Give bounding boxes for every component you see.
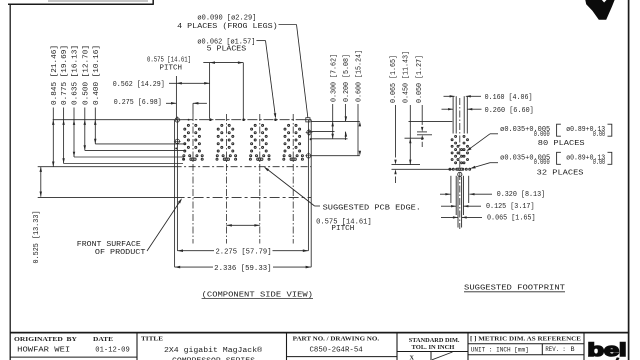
svg-text:0.275 [6.98]: 0.275 [6.98] [114,99,162,107]
dimension 0.400 (left) [94,108,96,144]
svg-text:0.065 [1.65]: 0.065 [1.65] [390,55,398,103]
component left edge (outer) [174,120,176,267]
svg-text:0.00: 0.00 [593,131,606,139]
ext line pin row right [311,138,348,140]
svg-text:C850-2G4R-54: C850-2G4R-54 [310,347,364,355]
dimension 0.525 front surface to PCB edge [40,167,42,197]
svg-text:0.000: 0.000 [534,159,550,167]
svg-text:STANDARD DIM.: STANDARD DIM. [409,337,460,344]
port group 2 centerline [225,114,227,244]
svg-text:FRONT SURFACE: FRONT SURFACE [77,241,141,249]
svg-text:HOWFAR WEI: HOWFAR WEI [17,347,70,355]
suggested PCB edge line (dash-dot across component) [38,166,175,168]
svg-text:0.775 [19.69]: 0.775 [19.69] [61,45,69,105]
leader to 80 places [490,133,498,135]
svg-text:0.00: 0.00 [593,159,606,167]
svg-text:0.450 [11.43]: 0.450 [11.43] [403,51,411,103]
port group 1 centerline [192,114,194,244]
port group 4 pin holes (0.035 dia pattern) [283,124,304,160]
svg-text:PART NO. / DRAWING NO.: PART NO. / DRAWING NO. [293,336,380,343]
dimension 0.160 (footprint top) [444,95,455,97]
dimension 0.500 (left) [84,108,86,151]
dimension 0.065 (footprint bottom) [441,216,458,218]
footprint frog leg pad [458,172,462,176]
svg-text:DATE: DATE [93,336,113,343]
svg-text:SUGGESTED PCB EDGE.: SUGGESTED PCB EDGE. [323,205,421,213]
top edge extension line to left dims [53,119,175,121]
stray pin dots near edges [175,147,177,149]
svg-text:ø0.090 [ø2.29]: ø0.090 [ø2.29] [197,14,256,22]
svg-text:B: B [571,346,575,354]
footprint bottom pad bars [450,176,452,203]
svg-text:bel: bel [588,340,627,360]
square mark at top-right corner [306,118,310,122]
port group 3 pin holes (0.035 dia pattern) [249,124,270,160]
svg-text:0.125 [3.17]: 0.125 [3.17] [486,203,535,211]
dimension 0.575 pitch (bottom) [226,224,259,226]
svg-text:[ ] METRIC DIM. AS REFERENCE: [ ] METRIC DIM. AS REFERENCE [470,335,581,342]
svg-text:2.336 [59.33]: 2.336 [59.33] [214,265,271,273]
port group 3 centerline [259,114,261,244]
svg-text:5 PLACES: 5 PLACES [207,46,247,54]
top-left cut-off revision box [8,3,153,5]
leader from frog legs label to top-right corner [279,24,297,26]
dimension 2.275 [177,250,214,252]
drawing sheet left border [9,4,11,360]
dimension 0.845 (left) [52,108,54,167]
ext line frog right upper [309,131,335,133]
dimension 0.260 (footprint top) [442,108,454,110]
svg-text:0.300 [7.62]: 0.300 [7.62] [330,54,338,102]
component top edge [175,119,183,121]
footprint bottom hole row (32 places) [449,168,471,170]
footprint center line [459,98,461,229]
svg-text:0.600 [15.24]: 0.600 [15.24] [356,50,364,102]
svg-text:0.500 [12.70]: 0.500 [12.70] [82,45,90,105]
footprint left reference lines [409,121,453,123]
svg-text:01-12-09: 01-12-09 [95,347,130,355]
drawing sheet right border [628,0,630,360]
svg-text:0.575 [14.61]: 0.575 [14.61] [147,56,191,64]
svg-text:4 PLACES (FROG LEGS): 4 PLACES (FROG LEGS) [177,23,278,31]
svg-text:UNIT : INCH [mm]: UNIT : INCH [mm] [471,346,529,354]
title block column dividers [136,333,138,360]
port group 2 pin holes (0.035 dia pattern) [216,124,237,160]
dimension 2.336 [175,266,213,268]
title block top line [10,332,629,334]
svg-text:REV. :: REV. : [545,346,565,354]
footprint pin hole diamond pattern (80 places) [451,135,468,163]
svg-text:TITLE: TITLE [141,336,163,343]
svg-text:PITCH: PITCH [160,64,183,72]
svg-text:0.635 [16.13]: 0.635 [16.13] [72,45,80,105]
svg-text:32 PLACES: 32 PLACES [537,169,584,177]
svg-text:80 PLACES: 80 PLACES [538,140,585,148]
0.062 dia holes (5 places) on top edge [209,118,212,121]
svg-text:TOL. IN INCH: TOL. IN INCH [412,344,455,351]
svg-text:0.562 [14.29]: 0.562 [14.29] [113,81,165,89]
footprint top pad bars [452,96,454,133]
right top edge extension [311,120,360,122]
svg-text:ORIGINATED BY: ORIGINATED BY [14,336,78,343]
svg-text:0.050 [1.27]: 0.050 [1.27] [416,55,424,103]
frog leg hole right lower [305,152,312,159]
tolerance cell diagonal [432,352,453,360]
title block row lines [10,356,137,358]
svg-text:2X4 gigabit MagJack®: 2X4 gigabit MagJack® [164,346,262,355]
svg-text:0.065 [1.65]: 0.065 [1.65] [487,214,536,222]
component left edge (inner) [176,120,178,251]
svg-text:0.200 [5.08]: 0.200 [5.08] [343,54,351,102]
UL-style certification logo (cut off at top) [585,0,614,20]
svg-text:OF PRODUCT: OF PRODUCT [95,249,145,257]
frog leg hole top-left [174,117,181,124]
svg-text:0.525 [13.33]: 0.525 [13.33] [33,211,41,264]
svg-text:0.160 [4.06]: 0.160 [4.06] [485,94,533,102]
ext line frog right lower [311,155,360,157]
port group 1 pin holes (0.035 dia pattern) [183,124,204,160]
svg-text:0.260 [6.60]: 0.260 [6.60] [485,107,534,115]
dimension 0.125 (footprint bottom) [441,205,456,207]
front surface of product line [38,196,175,198]
component right edge (outer) [310,120,312,267]
leader to 32 places [490,162,498,164]
svg-text:2.275 [57.79]: 2.275 [57.79] [216,248,272,256]
leader from 5 places label [256,40,265,42]
frog leg hole right upper [306,129,313,136]
svg-text:0.000: 0.000 [534,131,550,139]
svg-text:0.320 [8.13]: 0.320 [8.13] [497,191,546,199]
dimension 0.320 (footprint bottom) [440,193,450,195]
port group 4 centerline [292,114,294,244]
svg-text:PITCH: PITCH [331,225,354,233]
frog leg hole left [174,138,181,145]
dimension 0.775 (left) [63,108,65,164]
component right edge (inner) [307,120,309,251]
svg-text:0.400 [10.16]: 0.400 [10.16] [93,45,101,105]
svg-text:X: X [410,354,415,360]
dimension 0.635 (left) [73,108,75,158]
svg-text:0.845 [21.46]: 0.845 [21.46] [51,45,59,105]
